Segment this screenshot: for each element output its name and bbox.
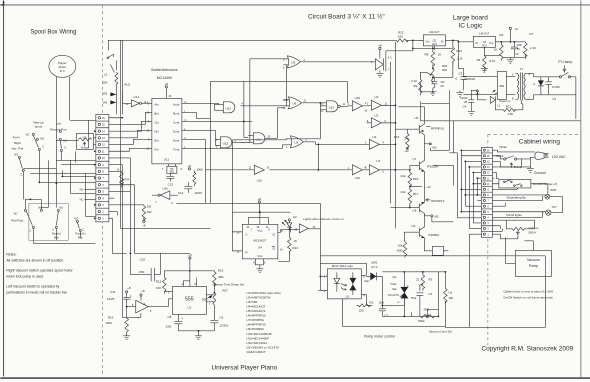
svg-text:R12: R12 — [156, 279, 162, 283]
svg-text:Spool: Spool — [35, 124, 43, 128]
power section wires — [495, 42, 525, 64]
internal triac — [352, 272, 354, 295]
corner mark top-left — [1, 1, 4, 5]
parts list — [246, 291, 281, 354]
svg-text:1K: 1K — [494, 47, 498, 51]
resistor R24 — [109, 171, 123, 187]
resistor R2 220 — [356, 300, 373, 312]
svg-text:W1: W1 — [103, 91, 108, 95]
resistor R3 22 — [416, 272, 433, 290]
diac QR1 ST-2 — [364, 260, 382, 283]
svg-text:U8=RFP9P10: U8=RFP9P10 — [246, 323, 265, 327]
svg-text:C9: C9 — [219, 315, 223, 319]
buffer U2c — [315, 135, 395, 150]
svg-text:7C7: 7C7 — [551, 205, 557, 209]
triac Q1 — [388, 272, 409, 304]
resistor R5 5.1K (ADJ-gnd) — [477, 47, 496, 72]
resistor R15 24k — [394, 131, 410, 153]
svg-text:u/12: u/12 — [133, 95, 139, 99]
cap C5 2200/25 — [454, 68, 475, 90]
svg-text:1.5K: 1.5K — [507, 112, 513, 116]
svg-text:PLAY: PLAY — [13, 135, 20, 139]
wires 555 top — [213, 292, 215, 294]
svg-text:Right: Right — [14, 141, 21, 145]
resistor R16 24k — [401, 169, 432, 189]
svg-text:RFP9P12: RFP9P12 — [431, 199, 444, 203]
svg-text:4 2: 4 2 — [388, 55, 392, 59]
svg-text:V​cc: V​cc — [257, 228, 263, 232]
opamp U2f — [140, 294, 142, 296]
cap C8 — [166, 314, 199, 331]
svg-text:IP3055A: IP3055A — [427, 164, 439, 168]
svg-text:MC14027: MC14027 — [253, 238, 266, 242]
svg-text:R14: R14 — [292, 246, 298, 250]
svg-text:Fout: Fout — [173, 147, 179, 151]
pot R27 50K — [202, 288, 228, 316]
svg-text:R3: R3 — [428, 277, 432, 281]
on-off switch — [492, 179, 556, 194]
svg-text:220: 220 — [359, 308, 364, 312]
svg-text:U9=IP3055A: U9=IP3055A — [246, 327, 265, 331]
svg-text:U9: U9 — [411, 224, 415, 228]
internal LED — [334, 272, 340, 291]
svg-text:C: C — [42, 144, 44, 148]
strip1 lower fanout drops — [109, 158, 161, 318]
svg-text:U7: U7 — [412, 157, 416, 161]
+8 node power — [509, 27, 511, 29]
spool wires mesh — [23, 120, 95, 243]
capacitor C12 — [184, 182, 192, 193]
resistor R14 1K — [278, 229, 298, 261]
svg-text:R8: R8 — [425, 52, 429, 56]
svg-text:C4: C4 — [463, 104, 467, 108]
NAND gate U12d — [320, 101, 347, 113]
resistor R6 1K (Out-ADJ) — [484, 33, 503, 61]
bridge DB1 — [489, 71, 515, 99]
svg-text:Q1: Q1 — [392, 275, 396, 279]
svg-text:Ground: Ground — [534, 171, 546, 175]
svg-text:Panel lights: Panel lights — [506, 213, 522, 217]
svg-text:U11: U11 — [164, 157, 170, 161]
svg-text:Out: Out — [489, 41, 493, 45]
timer U3 555 — [168, 278, 214, 320]
gate outputs to column — [315, 106, 395, 170]
svg-text:2.2k: 2.2k — [457, 56, 463, 60]
resistor R10 2.2k — [451, 39, 463, 65]
svg-text:D C: D C — [60, 69, 66, 73]
pump control wires — [318, 263, 385, 305]
player motor M1 — [49, 55, 76, 77]
capacitor C13 — [166, 173, 174, 181]
plug wires — [492, 150, 534, 168]
svg-text:Notes:: Notes: — [6, 252, 16, 256]
svg-text:C6: C6 — [515, 52, 519, 56]
U4 top wires — [248, 212, 268, 224]
cap C6 150/15 — [511, 42, 522, 58]
svg-text:ADJ: ADJ — [482, 44, 488, 48]
buffer U10a — [347, 96, 369, 113]
buffer U10b + U2d pair — [269, 165, 369, 180]
svg-text:10k: 10k — [398, 243, 403, 247]
transformer T1 — [512, 67, 533, 101]
svg-text:Stripulating lite: Stripulating lite — [506, 196, 526, 200]
svg-text:NC: NC — [80, 197, 84, 201]
svg-text:U6: U6 — [292, 102, 296, 106]
svg-text:W1: W1 — [432, 145, 437, 149]
svg-text:R27: R27 — [222, 288, 228, 292]
buffer U10c — [248, 165, 269, 182]
svg-text:R17: R17 — [413, 192, 419, 196]
svg-text:Right Vacuum switch operates s: Right Vacuum switch operates spool motor — [6, 268, 73, 272]
transistor U8 RFP9P12 — [412, 198, 444, 216]
svg-text:MOC 3010 opto: MOC 3010 opto — [332, 264, 354, 268]
volume pot 500K — [510, 226, 538, 235]
svg-text:Pump motor control: Pump motor control — [364, 334, 395, 338]
resistor R13 68K — [213, 268, 224, 293]
resistor R9 2.1K — [411, 77, 422, 95]
svg-text:NC: NC — [14, 211, 18, 215]
+8 node mid — [258, 201, 260, 203]
svg-text:C10: C10 — [140, 257, 146, 261]
+8 node C11 — [126, 291, 128, 293]
svg-text:R2: R2 — [369, 300, 373, 304]
svg-text:500k: 500k — [418, 319, 425, 323]
border right — [580, 0, 582, 378]
svg-text:Left: Left — [56, 121, 61, 125]
svg-text:10/25: 10/25 — [194, 191, 202, 195]
svg-text:L3: L3 — [104, 72, 108, 76]
svg-text:Bout: Bout — [173, 111, 179, 115]
svg-text:Q2: Q2 — [433, 38, 437, 42]
svg-text:QR1: QR1 — [371, 260, 378, 264]
pot R20 20K — [420, 64, 447, 84]
svg-text:Q3: Q3 — [483, 40, 487, 44]
svg-text:25: 25 — [464, 100, 468, 104]
svg-text:C: C — [20, 172, 22, 176]
cabinet left feed wires — [457, 150, 481, 234]
svg-text:T1: T1 — [520, 67, 524, 71]
L3 coil branch left of board — [102, 40, 130, 114]
switch box outline — [29, 203, 69, 240]
svg-text:F'U lamp: F'U lamp — [558, 60, 572, 64]
svg-text:perforations in music roll on: perforations in music roll on tracker ba… — [6, 290, 67, 294]
svg-text:GE: GE — [392, 287, 396, 291]
strip1 fanout to U11 — [109, 112, 152, 151]
svg-text:2.1K: 2.1K — [411, 79, 417, 83]
resistor R1 10k — [444, 286, 454, 304]
cap 10/25 — [431, 77, 444, 88]
svg-text:+8: +8 — [514, 27, 518, 31]
cap C10 — [130, 253, 190, 281]
svg-text:R19: R19 — [108, 315, 114, 319]
svg-text:NO: NO — [59, 205, 63, 209]
svg-text:C: C — [52, 227, 54, 231]
ground C5 — [455, 90, 463, 96]
buffer U2a — [367, 95, 395, 111]
ground U4 — [256, 269, 263, 273]
LM317 Q3 — [458, 31, 500, 50]
svg-text:C: C — [29, 228, 31, 232]
AND gate U12b — [215, 137, 250, 149]
svg-text:R7: R7 — [529, 32, 533, 36]
svg-text:20K: 20K — [442, 68, 447, 72]
svg-text:R10: R10 — [456, 49, 462, 53]
internal arrows — [341, 283, 346, 290]
U4 side wires — [232, 232, 281, 251]
svg-text:LM-317: LM-317 — [479, 31, 490, 35]
svg-text:Diac: Diac — [364, 279, 370, 283]
power wires — [413, 46, 453, 92]
small box bottom — [432, 246, 443, 255]
svg-text:Spool Box Wiring: Spool Box Wiring — [30, 29, 76, 35]
svg-text:5.1K: 5.1K — [489, 59, 495, 63]
svg-text:U2: U2 — [293, 215, 297, 219]
svg-text:C3: C3 — [428, 292, 432, 296]
svg-text:U12=MC14011: U12=MC14011 — [246, 341, 267, 345]
cap C9 — [198, 315, 229, 331]
U4 bottom wires — [255, 259, 263, 269]
svg-text:NC: NC — [26, 132, 30, 136]
svg-text:M2: M2 — [434, 214, 438, 218]
resistor R23 330 — [109, 205, 146, 221]
svg-text:C5: C5 — [459, 71, 463, 75]
svg-text:Nearest Time Delay Set: Nearest Time Delay Set — [213, 282, 245, 286]
svg-text:All switches are shown in off: All switches are shown in off position — [6, 258, 63, 262]
plug 120VAC — [535, 152, 566, 160]
svg-text:White: White — [499, 145, 507, 149]
svg-text:H1: H1 — [448, 290, 452, 294]
svg-text:Vacuum Limit Set: Vacuum Limit Set — [429, 329, 452, 333]
resistor R17 24k — [401, 185, 419, 208]
cap C1 47/250 — [545, 77, 560, 101]
svg-text:10/25: 10/25 — [107, 297, 115, 301]
svg-text:Triac: Triac — [390, 282, 397, 286]
svg-text:RFP9P10: RFP9P10 — [431, 126, 444, 130]
svg-text:R13: R13 — [218, 268, 224, 272]
svg-text:C: C — [64, 145, 66, 149]
svg-text:Large board: Large board — [453, 14, 488, 21]
IC U11 MC14490 — [152, 98, 182, 164]
svg-text:U2: U2 — [372, 135, 376, 139]
svg-text:47/250: 47/250 — [552, 85, 560, 89]
svg-text:9O8: 9O8 — [550, 188, 556, 192]
svg-text:C8: C8 — [168, 315, 172, 319]
svg-text:R5: R5 — [477, 58, 481, 62]
switch at top — [108, 54, 113, 58]
svg-text:U2: U2 — [374, 95, 378, 99]
strip1 left dots and stubs — [93, 138, 96, 145]
svg-text:R23: R23 — [147, 210, 152, 214]
svg-text:Out: Out — [425, 39, 429, 43]
svg-text:U10: U10 — [257, 178, 263, 182]
svg-text:U12: U12 — [256, 137, 262, 141]
svg-text:+12: +12 — [404, 149, 409, 153]
svg-text:U10=MC14069UB: U10=MC14069UB — [246, 332, 271, 336]
svg-text:+8: +8 — [258, 197, 262, 201]
svg-text:On/Off Switch on roll frame as: On/Off Switch on roll frame assembly — [503, 295, 553, 299]
svg-text:Din: Din — [154, 129, 159, 133]
svg-text:IN: IN — [441, 39, 444, 43]
ground power — [429, 88, 436, 96]
svg-text:15uf: 15uf — [378, 300, 384, 304]
svg-text:U8: U8 — [412, 208, 416, 212]
long bottom wire power — [420, 120, 580, 122]
svg-text:—12: —12 — [424, 185, 431, 189]
svg-text:U1: U1 — [346, 294, 350, 298]
svg-text:Switch/debounce: Switch/debounce — [151, 68, 178, 72]
svg-text:K: K — [268, 227, 270, 231]
svg-text:Vac. Pne: Vac. Pne — [11, 146, 23, 150]
svg-text:U10: U10 — [355, 176, 361, 180]
svg-text:C2: C2 — [384, 313, 388, 317]
svg-text:C1: C1 — [552, 97, 556, 101]
svg-text:Ein: Ein — [154, 138, 159, 142]
svg-text:Cabinet wiring: Cabinet wiring — [519, 138, 561, 145]
svg-text:R15: R15 — [394, 135, 400, 139]
resistor 10k H20 — [397, 240, 407, 257]
svg-text:120 VAC: 120 VAC — [552, 155, 566, 159]
border top — [0, 4, 590, 6]
svg-text:U2: U2 — [376, 159, 380, 163]
column wires — [390, 42, 395, 229]
resistor R8 1K — [425, 46, 442, 69]
svg-text:ADJ: ADJ — [432, 42, 438, 46]
svg-text:NC: NC — [80, 187, 84, 191]
cap C4 7200/25 — [460, 90, 480, 109]
svg-text:U2: U2 — [374, 113, 378, 117]
svg-text:U10: U10 — [162, 186, 168, 190]
svg-text:C13: C13 — [168, 182, 174, 186]
notes text — [6, 252, 73, 294]
fuse switch — [504, 158, 506, 160]
svg-text:C11: C11 — [110, 290, 116, 294]
wire motor leads — [56, 77, 69, 208]
svg-text:Bin: Bin — [154, 111, 159, 115]
svg-text:NO: NO — [74, 216, 78, 220]
resistor R12 10K — [156, 271, 215, 294]
tempo pot 10k — [76, 133, 93, 149]
resistor R22 200 — [395, 30, 423, 48]
svg-text:NO: NO — [40, 136, 44, 140]
svg-text:10k: 10k — [82, 135, 87, 139]
R11 1.5K — [501, 104, 517, 116]
svg-text:DB1: DB1 — [499, 84, 505, 88]
svg-text:+8: +8 — [378, 43, 382, 47]
svg-text:Left Vacuum switch is operated: Left Vacuum switch is operated by — [6, 284, 59, 288]
svg-text:LM-317: LM-317 — [429, 30, 440, 34]
svg-text:NO: NO — [14, 152, 18, 156]
transistor U9 P3055A — [411, 224, 439, 241]
svg-text:C: C — [82, 227, 84, 231]
svg-text:U7=IP3055A: U7=IP3055A — [246, 318, 265, 322]
bottom area links — [319, 275, 321, 277]
cap C3 75uf — [411, 288, 433, 300]
svg-text:U1: U1 — [187, 305, 191, 309]
svg-text:U2=MM74C907N: U2=MM74C907N — [246, 295, 270, 299]
svg-text:P3055A: P3055A — [428, 233, 439, 237]
svg-text:ST-2: ST-2 — [371, 265, 378, 269]
svg-text:Copyright R.M. Stanoszek 2009: Copyright R.M. Stanoszek 2009 — [481, 345, 573, 352]
svg-text:U12: U12 — [223, 141, 229, 145]
LM317 Q2 — [418, 30, 458, 50]
svg-text:Volume: Volume — [528, 226, 538, 230]
svg-text:Ain: Ain — [154, 102, 159, 106]
U4/U10c links — [232, 212, 242, 251]
OR gate U5b — [286, 136, 315, 149]
svg-text:R16: R16 — [413, 177, 419, 181]
dashed divider spool box — [101, 5, 103, 375]
strip1 terminals — [98, 116, 105, 221]
svg-text:Q2&3=LM317: Q2&3=LM317 — [246, 350, 265, 354]
svg-text:68K: 68K — [218, 275, 223, 279]
svg-text:100: 100 — [102, 80, 107, 84]
svg-text:+8: +8 — [141, 289, 145, 293]
svg-text:U5: U5 — [291, 61, 295, 65]
MOC3010 opto U1 — [322, 264, 366, 299]
AND gate U12a — [214, 101, 286, 113]
svg-text:W2: W2 — [103, 100, 108, 104]
svg-text:25: 25 — [440, 84, 444, 88]
vacuum pump box — [515, 250, 551, 276]
switch rewind pne — [59, 130, 61, 132]
OR gate U5a — [283, 56, 375, 70]
diode D1 — [532, 77, 543, 95]
svg-text:150/: 150/ — [517, 43, 522, 47]
svg-text:1/50: 1/50 — [166, 324, 172, 328]
svg-text:IC Logic: IC Logic — [458, 22, 483, 29]
svg-text:R11: R11 — [506, 104, 512, 108]
svg-text:Circuit Board 3 ¼" X 11 ½": Circuit Board 3 ¼" X 11 ½" — [308, 12, 385, 20]
ground 555 — [195, 331, 202, 340]
svg-text:Rewind Pne: Rewind Pne — [50, 127, 67, 131]
svg-text:Aout: Aout — [173, 102, 179, 106]
svg-text:R24: R24 — [124, 177, 129, 181]
U11 pin16 to +8 — [165, 88, 167, 98]
svg-text:A: A — [407, 284, 409, 288]
svg-text:Universal Player Piano: Universal Player Piano — [211, 364, 277, 371]
OR gate U6a — [282, 97, 320, 110]
svg-text:U6: U6 — [414, 116, 418, 120]
cap C2 15uf — [378, 300, 388, 317]
pot R25 500k — [418, 307, 434, 323]
svg-text:U4=MC14027: U4=MC14027 — [246, 305, 265, 309]
svg-text:C12: C12 — [178, 191, 184, 195]
svg-text:10k: 10k — [448, 296, 453, 300]
svg-text:+8: +8 — [165, 82, 169, 86]
svg-text:U6=RFP9P10: U6=RFP9P10 — [246, 314, 265, 318]
transistor U7 IP3055A — [412, 157, 438, 175]
svg-text:Cin: Cin — [154, 120, 159, 124]
cabinet wires — [492, 159, 521, 167]
svg-text:100k: 100k — [196, 167, 203, 171]
svg-text:Power on: Power on — [499, 99, 511, 103]
svg-text:100K: 100K — [105, 321, 112, 325]
svg-text:Tempo: Tempo — [80, 146, 88, 150]
junction dots spool — [38, 181, 40, 183]
svg-text:R9: R9 — [414, 84, 418, 88]
svg-text:U10: U10 — [355, 96, 361, 100]
svg-text:G: G — [397, 300, 399, 304]
LED L2 — [282, 215, 297, 230]
svg-text:U5: U5 — [294, 141, 298, 145]
svg-text:10K: 10K — [156, 286, 161, 290]
power bottom wires — [468, 90, 478, 115]
terminal strip 2 — [481, 147, 492, 237]
svg-text:IN: IN — [475, 41, 478, 45]
svg-text:1/50: 1/50 — [138, 270, 144, 274]
svg-text:Eout: Eout — [173, 138, 179, 142]
svg-text:U12: U12 — [226, 106, 232, 110]
